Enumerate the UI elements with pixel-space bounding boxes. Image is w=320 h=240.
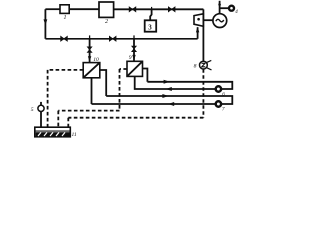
tilde inside motor xyxy=(216,19,224,22)
arrow up at top of motor vertical xyxy=(218,1,221,5)
plate 11 body xyxy=(35,127,71,137)
arrow down into box10 xyxy=(88,56,91,62)
dashed vertical between boxes xyxy=(119,69,121,111)
motor circle M xyxy=(213,14,227,28)
wire motor top vertical xyxy=(219,1,221,14)
vertical valve on box9 branch xyxy=(132,46,136,52)
svg-text:4: 4 xyxy=(235,10,238,15)
box9 right outlet to line1 xyxy=(143,69,148,82)
arrow right on line1 xyxy=(164,80,170,84)
branch to box 3 with kink xyxy=(150,9,151,20)
valve VA on bus2 xyxy=(61,36,68,41)
arrow down on left vertical xyxy=(44,19,48,25)
tick upper right of circle 8 xyxy=(206,60,211,62)
line3 supply to sensor 7 xyxy=(106,96,232,104)
dashed vertical below circle 8 xyxy=(202,69,204,118)
box10 bottom outlet xyxy=(91,78,93,104)
dashed drop to plate (right corner) xyxy=(67,118,69,128)
svg-text:2: 2 xyxy=(105,19,108,25)
valve VB on bus2 xyxy=(109,36,116,41)
wire bus1 box1 to box2 xyxy=(69,8,99,10)
plate hatch white slashes xyxy=(38,132,65,136)
fan hub dot xyxy=(197,18,200,21)
sensor circle 4 xyxy=(229,6,234,11)
fan inlet riser from bus2 xyxy=(197,27,199,39)
squiggle inside circle 8 xyxy=(202,63,206,67)
plate inner line xyxy=(36,130,70,132)
dashed stub from box9 left xyxy=(120,68,128,70)
svg-text:3: 3 xyxy=(148,23,152,31)
wire fan to motor xyxy=(203,19,213,21)
junction tick box9 branch xyxy=(133,35,135,38)
dashed drop to plate (mid) xyxy=(57,111,59,128)
box 3 xyxy=(145,20,157,31)
sensor circle 7 xyxy=(216,101,221,106)
junction tick above bus1 at box3 branch xyxy=(151,7,153,9)
wire stub to sensor 4 xyxy=(220,7,229,9)
dashed horizontal to corner xyxy=(58,110,119,112)
valve V1 on bus1 xyxy=(129,7,136,12)
valve V2 on bus1 xyxy=(168,7,175,12)
sensor circle 6 xyxy=(216,86,221,91)
dashed stub from box10 left xyxy=(48,69,84,71)
line4 return from sensor 7 xyxy=(92,103,216,105)
box 10 diagonal xyxy=(83,63,100,78)
box 10 heat exchanger xyxy=(83,63,100,78)
svg-text:9: 9 xyxy=(129,55,132,61)
wire bus1 left to box1 xyxy=(45,8,60,10)
box10 right outlet xyxy=(100,70,106,96)
box 2 xyxy=(99,2,114,17)
wire right vertical from bus1 down to circle 8 xyxy=(202,9,204,61)
box 9 heat exchanger xyxy=(127,61,143,76)
sensor 5 stem xyxy=(40,102,42,127)
svg-text:7: 7 xyxy=(222,108,225,113)
svg-text:5: 5 xyxy=(31,107,34,113)
box 9 diagonal xyxy=(127,61,143,76)
svg-text:1: 1 xyxy=(64,15,67,21)
fan housing xyxy=(194,14,203,26)
box9 bottom outlet to line2 xyxy=(135,76,215,89)
arrow up into fan xyxy=(196,27,199,33)
wire bus2 xyxy=(45,38,197,40)
line1 supply to sensor 6 xyxy=(147,82,232,89)
svg-text:11: 11 xyxy=(72,132,77,138)
arrow right on line3 xyxy=(162,94,168,98)
wire left vertical xyxy=(44,9,46,39)
plate hatch band xyxy=(36,132,70,136)
tick lower right of circle 8 xyxy=(206,68,211,70)
spray device circle 8 xyxy=(200,61,208,69)
arrow left on line4 xyxy=(168,102,174,106)
arrow left on line2 xyxy=(166,87,172,91)
wire bus1 box2 to right corner xyxy=(114,8,204,10)
branch wire down to box 9 xyxy=(133,39,135,62)
arrow down into box9 xyxy=(132,55,135,61)
dashed vertical to plate (left) xyxy=(47,70,49,127)
junction tick box10 branch xyxy=(89,35,91,38)
box 1 xyxy=(60,5,69,14)
branch wire down to box 10 xyxy=(89,39,91,63)
dashed horizontal at y118 xyxy=(68,117,203,119)
vertical valve on box10 branch xyxy=(87,47,91,53)
svg-text:8: 8 xyxy=(194,63,197,69)
sensor circle 5 xyxy=(38,105,44,111)
